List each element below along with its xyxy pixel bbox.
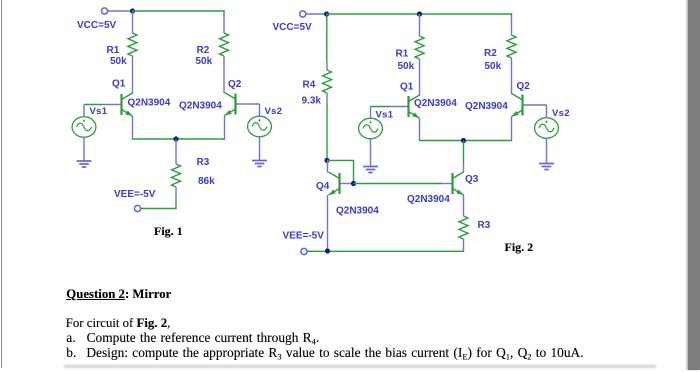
pin: R1 top pin Fig.1 xyxy=(132,11,134,33)
node VCC Fig.2 (junction) xyxy=(324,11,329,16)
transistor Q2 Fig.1 xyxy=(225,93,256,116)
port VCC Fig.2 xyxy=(300,11,306,17)
node R1 branch junction Fig.2 xyxy=(417,11,422,16)
wire: rail corner down to R2 Fig.2 xyxy=(511,13,513,17)
pin: R2 bottom pin to Q2 collector Fig.1 xyxy=(223,56,225,93)
wire: rail corner down to R2 Fig.1 xyxy=(223,10,225,16)
port VEE Fig.1 xyxy=(134,205,140,211)
pin: Q1 emitter pin down Fig.2 xyxy=(419,118,421,141)
svg-text:Vs2: Vs2 xyxy=(265,106,283,117)
pin: Vs1 minus pin down Fig.1 xyxy=(83,137,85,161)
resistor R2 Fig.2 xyxy=(507,35,516,58)
svg-text:50k: 50k xyxy=(485,61,502,72)
port VEE Fig.2 xyxy=(301,248,307,254)
transistor Q3 Fig.2 xyxy=(437,172,464,195)
transistor Q4 Fig.2 xyxy=(329,172,353,195)
pin: R2 top pin Fig.2 xyxy=(511,16,513,35)
caption Fig. 2 xyxy=(505,240,534,255)
wire: Vs1 to Q1 base Fig.2 xyxy=(371,106,390,108)
pin: R3 bottom pin Fig.1 xyxy=(175,187,177,199)
node Q4 base junction Fig.2 xyxy=(351,181,356,186)
svg-text:Q2N3904: Q2N3904 xyxy=(414,98,457,109)
svg-text:Vs1: Vs1 xyxy=(376,110,394,121)
svg-text:R1: R1 xyxy=(107,45,120,56)
svg-text:Q2N3904: Q2N3904 xyxy=(465,101,508,112)
pin: R1 bottom pin to Q1 collector Fig.2 xyxy=(419,59,421,96)
svg-text:Q2: Q2 xyxy=(228,79,242,90)
pin: R3 bottom pin Fig.2 xyxy=(463,239,465,252)
pin: Q4 collector pin up Fig.2 xyxy=(327,160,329,172)
pin: Vs2 minus pin down Fig.2 xyxy=(546,138,548,164)
svg-text:9.3k: 9.3k xyxy=(302,96,322,107)
svg-text:Q2N3904: Q2N3904 xyxy=(128,98,171,109)
text line: For circuit of Fig. 2, xyxy=(66,316,171,331)
resistor R1 Fig.1 xyxy=(128,33,137,56)
svg-text:R3: R3 xyxy=(478,220,491,231)
pin: R4 bottom pin Fig.2 xyxy=(326,93,328,103)
transistor Q1 Fig.2 xyxy=(389,95,420,118)
svg-text:50k: 50k xyxy=(196,56,213,67)
resistor R4 Fig.2 xyxy=(323,70,332,93)
pin: Vs2 minus pin down Fig.1 xyxy=(259,137,261,161)
pin: Vs1 minus pin down Fig.2 xyxy=(370,139,372,167)
svg-text:Q2: Q2 xyxy=(517,81,531,92)
wire: emitter rail Fig.2 xyxy=(420,140,512,142)
pin: R1 top pin Fig.2 xyxy=(419,14,421,36)
node tail junction Fig.2 xyxy=(461,138,466,143)
pin: R2 bottom pin to Q2 collector Fig.2 xyxy=(511,58,513,94)
svg-text:50k: 50k xyxy=(110,56,127,67)
pin: R2 top pin Fig.1 xyxy=(223,15,225,33)
pin: Q2 emitter pin down Fig.2 xyxy=(511,117,513,142)
svg-text:VEE=-5V: VEE=-5V xyxy=(283,231,325,242)
svg-text:Q2N3904: Q2N3904 xyxy=(179,101,222,112)
source Vs2 Fig.2 xyxy=(535,118,559,139)
wire: VCC down to R4 Fig.2 xyxy=(326,14,328,62)
node emitter junction Fig.1 xyxy=(173,136,178,141)
source Vs1 Fig.2 xyxy=(359,118,383,139)
wire: Vs1 to Q1 base Fig.1 xyxy=(84,104,102,106)
scrollbar gray bar right edge xyxy=(688,0,700,370)
wire: Vs2 to Q2 base Fig.1 xyxy=(256,103,260,105)
ground below Vs2 Fig.2 xyxy=(539,164,554,170)
wire: VEE rail Fig.2 xyxy=(307,250,464,252)
wire: Q4 base-collector tie Fig.2 xyxy=(327,160,354,183)
resistor R3 Fig.1 xyxy=(172,164,181,187)
svg-text:Q4: Q4 xyxy=(316,181,330,192)
svg-text:86k: 86k xyxy=(198,176,215,187)
svg-text:Q2N3904: Q2N3904 xyxy=(407,194,450,205)
svg-text:Q3: Q3 xyxy=(465,174,479,185)
svg-text:R1: R1 xyxy=(396,49,409,60)
wire: VCC port stub Fig.1 xyxy=(108,10,133,12)
svg-text:VCC=5V: VCC=5V xyxy=(77,20,117,31)
pin: R4 top pin Fig.2 xyxy=(326,62,328,70)
pin: Q3 collector pin Fig.2 xyxy=(463,163,465,173)
port VCC Fig.1 xyxy=(101,8,107,14)
svg-text:R2: R2 xyxy=(484,48,497,59)
svg-text:R4: R4 xyxy=(303,80,316,91)
cut-off next text line remnant at page bottom xyxy=(64,365,656,368)
resistor R1 Fig.2 xyxy=(415,36,424,59)
svg-text:Q1: Q1 xyxy=(112,79,126,90)
pin: Vs2 plus pin up Fig.2 xyxy=(546,105,548,118)
wire: VCC port stub Fig.2 xyxy=(306,13,327,15)
pin: R3 top pin Fig.1 xyxy=(175,139,177,164)
wire: mirror base rail Q4 to Q3 Fig.2 xyxy=(354,183,442,185)
pin: Q3 emitter pin down to R3 Fig.2 xyxy=(463,195,465,216)
transistor Q1 Fig.1 xyxy=(102,93,133,116)
wire: VCC top rail Fig.1 xyxy=(133,10,225,12)
text line a: Compute the reference current through R4. xyxy=(66,330,319,347)
page left edge line xyxy=(1,0,3,368)
svg-text:VEE=-5V: VEE=-5V xyxy=(114,189,156,200)
wire: tail down to Q3 collector Fig.2 xyxy=(463,141,465,164)
node VCC Fig.1 (junction) xyxy=(130,8,135,13)
svg-text:VCC=5V: VCC=5V xyxy=(273,22,313,33)
ground below Vs1 Fig.1 xyxy=(77,161,92,167)
node Q4 emitter on VEE rail Fig.2 xyxy=(325,248,330,253)
text line b: Design: compute the appropriate R3 value ... xyxy=(66,345,583,362)
wire: R3 to VEE port Fig.1 xyxy=(140,199,176,209)
pin: R1 bottom pin to Q1 collector Fig.1 xyxy=(132,56,134,94)
pin: Vs1 plus pin up Fig.1 xyxy=(83,105,85,118)
transistor Q2 Fig.2 xyxy=(512,94,543,117)
pin: Vs2 plus pin up Fig.1 xyxy=(259,104,261,117)
heading Question 2: Mirror xyxy=(66,287,171,302)
node Q4 collector tie Fig.2 xyxy=(324,158,329,163)
caption Fig. 1 xyxy=(154,224,183,239)
ground below Vs1 Fig.2 xyxy=(363,167,378,173)
pin: Q4 emitter pin down Fig.2 xyxy=(327,195,329,252)
source Vs1 Fig.1 xyxy=(72,117,96,138)
resistor R2 Fig.1 xyxy=(220,33,229,56)
source Vs2 Fig.1 xyxy=(248,116,272,137)
svg-text:Vs1: Vs1 xyxy=(90,106,108,117)
svg-text:Q1: Q1 xyxy=(400,82,414,93)
ground below Vs2 Fig.1 xyxy=(252,161,267,167)
svg-text:R2: R2 xyxy=(197,45,210,56)
svg-text:R3: R3 xyxy=(197,157,210,168)
svg-text:50k: 50k xyxy=(398,61,415,72)
resistor R3 Fig.2 xyxy=(459,216,468,239)
pin: Q1 emitter pin down Fig.1 xyxy=(132,116,134,140)
pin: Vs1 plus pin up Fig.2 xyxy=(370,107,372,119)
wire: VCC top rail Fig.2 xyxy=(327,13,513,15)
wire: Vs2 to Q2 base Fig.2 xyxy=(543,104,547,106)
pin: Q2 emitter pin down Fig.1 xyxy=(224,116,226,140)
wire: R4 to mirror node Fig.2 xyxy=(326,103,328,160)
svg-text:Vs2: Vs2 xyxy=(552,108,570,119)
svg-text:Q2N3904: Q2N3904 xyxy=(336,206,379,217)
wire: emitter rail Fig.1 xyxy=(133,138,225,140)
